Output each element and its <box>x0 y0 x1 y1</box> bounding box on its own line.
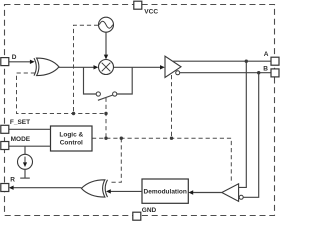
wire MODE to logic block <box>9 145 51 147</box>
svg-text:R: R <box>10 177 15 184</box>
svg-text:GND: GND <box>142 207 157 214</box>
wire A net <box>173 60 271 62</box>
pin F_SET <box>1 125 9 133</box>
control line to output buffer (dashed) <box>171 75 173 138</box>
inverting bubble on buffer <box>176 71 180 75</box>
Logic & Control block <box>51 126 93 151</box>
svg-text:VCC: VCC <box>144 9 158 16</box>
inverting bubble on comparator <box>239 195 243 199</box>
Demodulation block <box>142 179 188 203</box>
svg-text:A: A <box>264 51 269 58</box>
control line to XOR2 (dashed) <box>110 138 121 182</box>
XOR gate U2 (receive xor) mirrored <box>81 180 105 197</box>
svg-text:Demodulation: Demodulation <box>144 188 187 195</box>
current source I1 <box>24 146 26 154</box>
pin R <box>1 184 9 192</box>
control line to oscillator (dashed) <box>74 25 99 113</box>
wire XOR2 to R pad <box>13 187 82 189</box>
wire multiplier to buffer <box>114 66 162 68</box>
oscillator <box>99 17 114 32</box>
switch S1 (ASK shorting switch) <box>84 67 97 94</box>
junction dots <box>72 112 75 115</box>
XOR gate U1 (data xor clock) <box>37 58 59 76</box>
input comparator triangle (receiver) <box>222 184 239 202</box>
pin GND <box>133 212 141 220</box>
control bus from Logic block (dashed) <box>92 138 231 183</box>
svg-text:Control: Control <box>60 140 83 147</box>
svg-text:D: D <box>12 54 17 61</box>
output buffer triangle <box>165 56 181 77</box>
wire XOR1 to multiplier <box>59 66 95 68</box>
pin MODE <box>1 142 9 150</box>
svg-text:MODE: MODE <box>11 136 31 143</box>
wire B net <box>180 72 271 74</box>
wire F_SET to logic block <box>9 128 51 130</box>
control line to switch (dashed) <box>105 98 107 139</box>
control line to XOR1 lower input (dashed) <box>17 73 107 114</box>
chip boundary (dashed border) <box>5 5 275 216</box>
wire demodulation output to XOR2 <box>111 190 143 192</box>
multiplier (mixer) <box>99 60 114 75</box>
pin A <box>271 57 279 65</box>
ground tick of current source <box>20 177 30 179</box>
pin VCC <box>134 1 142 9</box>
svg-text:B: B <box>263 65 268 72</box>
wire D to XOR1 <box>9 61 32 63</box>
wire comparator to demodulation <box>193 192 222 194</box>
pin D <box>1 58 9 66</box>
svg-text:F_SET: F_SET <box>10 119 30 126</box>
pin B <box>271 69 279 77</box>
svg-text:Logic &: Logic & <box>59 131 83 138</box>
wire oscillator to multiplier <box>105 32 107 56</box>
